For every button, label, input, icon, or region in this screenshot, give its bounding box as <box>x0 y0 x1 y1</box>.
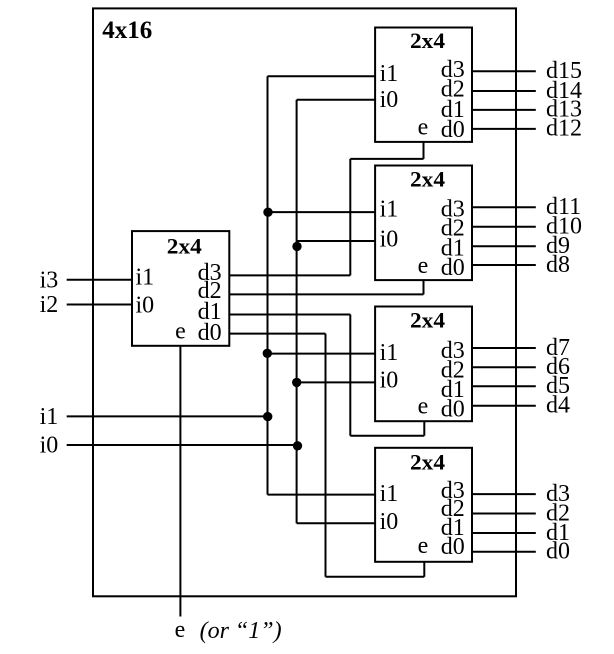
wire i0 bus to U5.i0 <box>297 522 376 524</box>
outer block 4x16 <box>93 8 516 596</box>
svg-text:(or “1”): (or “1”) <box>200 618 282 644</box>
svg-text:2x4: 2x4 <box>410 308 445 333</box>
decoder U3 (outputs d11-d8) 2x4 block <box>375 166 472 281</box>
wire output d0 <box>472 551 536 553</box>
wire U1.d0 vertical down to U5.e row <box>325 334 327 577</box>
svg-text:d0: d0 <box>441 117 465 143</box>
junction i0 bus / U4.i0 branch <box>292 378 301 387</box>
wire U4.e stub <box>423 421 425 436</box>
svg-text:i1: i1 <box>380 197 399 223</box>
wire i0 bus to U2.i0 <box>297 99 376 101</box>
junction i1 bus / U3.i1 branch <box>263 208 272 217</box>
wire U1.d1 vertical down to U4.e row <box>349 315 351 436</box>
svg-text:i1: i1 <box>380 340 399 366</box>
junction i0 bus / U3.i0 branch <box>292 242 301 251</box>
svg-text:e: e <box>418 394 429 420</box>
wire output d9 <box>472 245 536 247</box>
svg-text:d0: d0 <box>198 320 222 346</box>
wire i1 vertical bus <box>267 76 269 494</box>
wire U1.d0 horizontal <box>229 333 325 335</box>
wire output d11 <box>472 206 536 208</box>
svg-text:d12: d12 <box>546 116 582 142</box>
wire i0 input line <box>67 444 298 446</box>
wire output d12 <box>472 128 536 130</box>
wire output d2 <box>472 513 536 515</box>
svg-text:i0: i0 <box>380 87 399 113</box>
wire output d4 <box>472 405 536 407</box>
svg-text:i2: i2 <box>40 292 59 318</box>
svg-text:i0: i0 <box>136 293 155 319</box>
wire output d7 <box>472 347 536 349</box>
svg-text:e: e <box>418 253 429 279</box>
wire output d10 <box>472 226 536 228</box>
svg-text:i0: i0 <box>380 226 399 252</box>
junction i0 bus / i0 input line <box>293 441 302 450</box>
wire U4.e horizontal <box>350 435 424 437</box>
wire U5.e horizontal <box>326 576 425 578</box>
svg-text:i0: i0 <box>40 433 59 459</box>
decoder U1 (input stage) 2x4 block <box>132 231 229 346</box>
wire i0 bus to U3.i0 <box>297 240 376 242</box>
wire output d14 <box>472 90 536 92</box>
svg-text:i1: i1 <box>380 481 399 507</box>
wire i1 bus to U2.i1 <box>268 75 376 77</box>
svg-text:d0: d0 <box>441 534 465 560</box>
svg-text:e: e <box>175 319 186 345</box>
wire i2 input to U1.i0 <box>67 304 132 306</box>
decoder U4 (outputs d7-d4) 2x4 block <box>375 307 472 422</box>
svg-text:2x4: 2x4 <box>410 166 445 191</box>
svg-text:i3: i3 <box>40 268 59 294</box>
svg-text:2x4: 2x4 <box>410 28 445 53</box>
svg-text:i1: i1 <box>40 404 59 430</box>
wire U1.d3 vertical up to U2.e row <box>349 159 351 276</box>
svg-text:d0: d0 <box>441 397 465 423</box>
svg-text:2x4: 2x4 <box>167 234 202 259</box>
wire U3.e stub <box>423 280 425 294</box>
wire output d13 <box>472 109 536 111</box>
wire i1 bus to U4.i1 <box>268 353 376 355</box>
wire output d15 <box>472 70 536 72</box>
decoder U2 (outputs d15-d12) 2x4 block <box>375 28 472 142</box>
wire output d5 <box>472 385 536 387</box>
wire U1.e vertical to external e <box>179 346 181 617</box>
svg-text:e: e <box>175 617 186 643</box>
wire output d6 <box>472 366 536 368</box>
svg-text:i1: i1 <box>380 61 399 87</box>
svg-text:d8: d8 <box>546 252 570 278</box>
svg-text:e: e <box>418 533 429 559</box>
wire U5.e stub <box>423 562 425 577</box>
svg-text:d4: d4 <box>546 393 570 419</box>
wire U2.e horizontal <box>350 158 423 160</box>
wire i0 vertical bus <box>296 100 298 523</box>
junction i1 bus / U4.i1 branch <box>263 349 272 358</box>
svg-text:4x16: 4x16 <box>102 17 152 44</box>
svg-text:d0: d0 <box>441 255 465 281</box>
wire U2.e stub <box>423 142 425 159</box>
wire U1.d1 horizontal <box>229 314 350 316</box>
wire output d1 <box>472 532 536 534</box>
svg-text:i1: i1 <box>136 264 155 290</box>
wire output d8 <box>472 264 536 266</box>
svg-text:2x4: 2x4 <box>410 449 445 474</box>
wire i1 bus to U5.i1 <box>268 494 376 496</box>
wire U1.d2 horizontal to U3.e <box>229 293 423 295</box>
wire i3 input to U1.i1 <box>67 279 132 281</box>
wire i1 bus to U3.i1 <box>268 211 376 213</box>
decoder U5 (outputs d3-d0) 2x4 block <box>375 448 472 562</box>
wire output d3 <box>472 493 536 495</box>
wire i0 bus to U4.i0 <box>297 381 376 383</box>
junction i1 bus / i1 input line <box>263 412 272 421</box>
svg-text:i0: i0 <box>380 367 399 393</box>
wire U1.d3 horizontal <box>229 274 350 276</box>
wire i1 input line <box>67 415 268 417</box>
svg-text:d0: d0 <box>546 539 570 565</box>
svg-text:e: e <box>418 114 429 140</box>
svg-text:i0: i0 <box>380 509 399 535</box>
